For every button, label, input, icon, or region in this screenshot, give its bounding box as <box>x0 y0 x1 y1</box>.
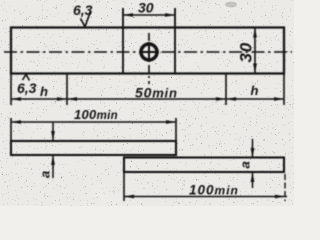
extension x=67 <box>66 74 68 106</box>
blank 1 outline (side view) <box>11 141 176 155</box>
gauge section line left <box>122 8 124 74</box>
extension blank1 right <box>175 118 177 141</box>
hole <box>141 44 157 60</box>
dim 100min bottom line <box>124 196 287 198</box>
paper background <box>0 0 294 206</box>
hole vertical centerline <box>148 33 150 84</box>
extension blank2 right <box>284 174 286 201</box>
dim 100min arrows <box>11 120 21 124</box>
extension x=226 <box>225 74 227 106</box>
bottom dim arrows <box>11 97 21 101</box>
extension blank2 left <box>123 172 125 201</box>
dim 30 right line <box>254 28 256 74</box>
gauge section line right <box>174 8 176 74</box>
faint smudge top right <box>225 2 237 8</box>
roughness mark bottom 6,3 <box>23 74 30 80</box>
dim 30 top line <box>123 14 175 16</box>
dim 100min line <box>11 121 176 123</box>
roughness mark top 6,3 <box>81 12 91 27</box>
dim 30 right arrows <box>253 28 257 38</box>
extension blank1 left <box>10 118 12 141</box>
hole cross vertical <box>148 42 150 62</box>
horizontal centerline <box>4 51 292 53</box>
dim a blank1 upper <box>52 122 54 140</box>
blank 2 outline (side view) <box>124 158 284 173</box>
scan mottle overlay <box>0 0 294 206</box>
scan grain overlay <box>0 0 294 206</box>
dim a blank2 lower <box>252 173 254 188</box>
dim 30 top arrows <box>123 13 133 17</box>
dim 100min bottom arrows <box>124 195 134 199</box>
specimen plan outline <box>11 28 284 74</box>
hole cross horizontal <box>139 51 159 53</box>
extension right edge <box>283 74 285 106</box>
dim a blank1 lower <box>52 156 54 178</box>
bottom dimension line h / 50min / h <box>11 98 284 100</box>
dim a blank2 upper <box>252 139 254 157</box>
extension left edge <box>10 74 12 106</box>
